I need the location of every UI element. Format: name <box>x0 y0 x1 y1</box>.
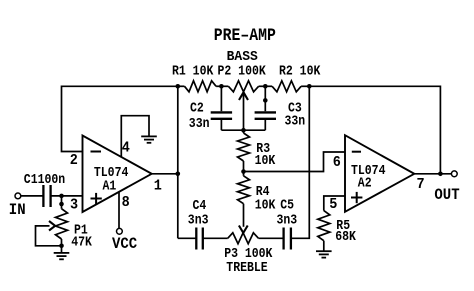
svg-text:5: 5 <box>329 196 337 213</box>
svg-text:3n3: 3n3 <box>277 212 298 228</box>
label R5 <box>336 217 350 233</box>
svg-text:7: 7 <box>417 177 425 194</box>
label OUT <box>434 185 459 204</box>
wire C4 to P3 <box>203 237 228 239</box>
svg-text:C5: C5 <box>280 196 294 212</box>
resistor R5 <box>318 211 330 251</box>
pin 4 label <box>122 140 131 157</box>
svg-text:47K: 47K <box>71 234 92 250</box>
wire C1 to pin3 <box>51 195 83 197</box>
label BASS <box>227 49 258 64</box>
junction R2/C5-rail/feedback <box>307 84 312 89</box>
wire A1 feedback: pin2 stub, left rail and top segment to R1 <box>62 86 178 151</box>
label R4 value 10K <box>255 196 276 212</box>
label C2 <box>190 100 204 116</box>
wire pin4 to ground <box>121 116 149 158</box>
label R5 value 68K <box>335 228 356 244</box>
pin 1 label <box>154 178 162 195</box>
pin 8 label <box>122 195 130 212</box>
svg-text:3n3: 3n3 <box>188 212 209 228</box>
label P1 value 47K <box>71 234 92 250</box>
svg-text:P2 100K: P2 100K <box>218 63 267 79</box>
op-amp U2 TL074 A2 <box>345 135 414 212</box>
junction R1/P2/C2 <box>219 84 224 89</box>
resistor R3 <box>238 130 250 171</box>
pin 2 label <box>70 153 78 170</box>
junction A1 output <box>176 172 181 177</box>
wiper arrow R4 to P3 <box>239 226 248 233</box>
ground R5 <box>316 251 332 257</box>
potentiometer P1 track <box>56 196 68 253</box>
pin 5 label <box>329 196 337 213</box>
svg-text:BASS: BASS <box>227 49 258 64</box>
ground P1 <box>54 253 70 259</box>
label C2 value 33n <box>189 115 210 131</box>
svg-text:R1 10K: R1 10K <box>172 63 214 79</box>
svg-text:C1100n: C1100n <box>24 171 65 187</box>
junction on C3 top stub <box>263 98 268 103</box>
wire right network rail C5 to R2 <box>291 86 309 238</box>
svg-text:A2: A2 <box>358 174 372 190</box>
wire P3 to C5 <box>259 237 284 239</box>
label P1 <box>74 221 88 237</box>
junction output/feedback <box>438 172 443 177</box>
pin 7 label <box>417 177 425 194</box>
op-amp U1 TL074 A1 <box>83 136 152 213</box>
svg-text:68K: 68K <box>335 228 356 244</box>
svg-text:VCC: VCC <box>112 234 137 253</box>
title PRE-AMP <box>214 26 276 45</box>
svg-text:OUT: OUT <box>434 185 459 204</box>
capacitor C5 <box>284 228 291 250</box>
label C4 value 3n3 <box>188 212 209 228</box>
capacitor C3 <box>255 86 276 130</box>
svg-text:10K: 10K <box>255 152 276 168</box>
wire A1out to C4 <box>178 237 197 239</box>
potentiometer P3 track <box>228 233 259 244</box>
label P3 100K <box>224 245 273 261</box>
svg-text:33n: 33n <box>285 112 306 128</box>
label C5 <box>280 196 294 212</box>
resistor R4 <box>238 172 250 227</box>
junction P2 wiper / R3 <box>241 128 246 133</box>
wire pin6 connection <box>244 152 346 172</box>
label R1 10K <box>172 63 214 79</box>
junction R3/R4/pin6 <box>241 169 246 174</box>
svg-text:10K: 10K <box>255 196 276 212</box>
svg-text:3: 3 <box>70 197 78 214</box>
potentiometer P2 wiper arrow <box>239 92 248 130</box>
wire A1 output vertical rail <box>177 86 179 238</box>
label C3 <box>288 99 302 115</box>
capacitor C2 <box>211 86 232 130</box>
potentiometer P1 wiper and loop <box>36 221 62 246</box>
terminal VCC <box>117 228 123 234</box>
junction P1 wiper/bottom <box>59 244 64 249</box>
junction C1/P1/pin3 <box>59 194 64 199</box>
label C3 value 33n <box>285 112 306 128</box>
label VCC <box>112 234 137 253</box>
label R4 <box>256 183 270 199</box>
wire pin5 to R5 <box>324 196 345 211</box>
wire A1 pin1 stub <box>152 173 178 175</box>
label TREBLE <box>226 259 268 275</box>
svg-text:8: 8 <box>122 195 130 212</box>
svg-text:1: 1 <box>154 178 162 195</box>
svg-text:C2: C2 <box>190 100 204 116</box>
potentiometer P2 track <box>221 81 265 92</box>
wire pin8 to VCC <box>118 192 120 229</box>
wire top-right feedback to OUT node <box>309 86 440 174</box>
junction node A1out/R1-left <box>176 84 181 89</box>
wire A2 output <box>414 173 451 175</box>
label C5 value 3n3 <box>277 212 298 228</box>
svg-text:4: 4 <box>122 140 131 157</box>
svg-text:2: 2 <box>70 153 78 170</box>
svg-text:IN: IN <box>9 200 26 219</box>
output terminal OUT <box>451 171 457 177</box>
ground pin4 <box>141 136 157 142</box>
svg-text:6: 6 <box>333 154 341 171</box>
svg-text:33n: 33n <box>189 115 210 131</box>
pin 3 label <box>70 197 78 214</box>
resistor R1 <box>178 81 222 92</box>
svg-text:TREBLE: TREBLE <box>226 259 268 275</box>
svg-text:PRE–AMP: PRE–AMP <box>214 26 276 45</box>
label R3 <box>256 140 270 156</box>
resistor R2 <box>265 81 309 92</box>
pin 6 label <box>333 154 341 171</box>
label R2 10K <box>279 63 321 79</box>
label IN <box>9 200 26 219</box>
junction P2/R2/C3 <box>263 84 268 89</box>
input terminal IN <box>15 193 43 199</box>
capacitor C1 <box>43 185 50 207</box>
label C1 100n <box>24 171 65 187</box>
label P2 100K <box>218 63 267 79</box>
svg-text:A1: A1 <box>103 178 117 194</box>
svg-text:R2 10K: R2 10K <box>279 63 321 79</box>
label R3 value 10K <box>255 152 276 168</box>
capacitor C4 <box>196 228 203 250</box>
wire capacitor bottom rail <box>221 129 265 131</box>
label C4 <box>193 197 207 213</box>
junction P1 top <box>59 202 64 207</box>
